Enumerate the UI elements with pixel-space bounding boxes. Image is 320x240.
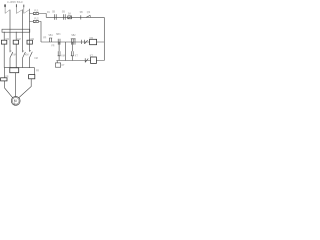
svg-text:QS: QS xyxy=(87,12,91,14)
svg-text:SB: SB xyxy=(80,12,84,14)
svg-text:SB: SB xyxy=(52,12,56,14)
svg-text:FR: FR xyxy=(51,45,54,47)
svg-text:FU: FU xyxy=(47,12,50,14)
svg-text:KT: KT xyxy=(75,56,79,58)
svg-text:KM: KM xyxy=(6,39,10,41)
svg-text:KM: KM xyxy=(90,38,94,40)
svg-text:KM: KM xyxy=(12,55,16,57)
svg-text:FR: FR xyxy=(5,76,8,78)
svg-text:SA: SA xyxy=(68,12,72,15)
svg-text:KM: KM xyxy=(25,55,29,57)
svg-text:SB1: SB1 xyxy=(48,35,53,37)
svg-text:M: M xyxy=(14,99,17,103)
svg-text:3~380V: 3~380V xyxy=(7,0,16,4)
svg-text:50Hz: 50Hz xyxy=(17,0,24,4)
svg-text:FR: FR xyxy=(43,38,46,40)
svg-text:KM: KM xyxy=(34,58,38,60)
svg-text:SB3: SB3 xyxy=(56,34,61,36)
svg-text:KM: KM xyxy=(61,56,65,58)
svg-text:KT: KT xyxy=(62,65,66,67)
svg-text:SB2: SB2 xyxy=(71,35,76,37)
svg-text:FR: FR xyxy=(36,70,39,72)
svg-text:KM: KM xyxy=(17,39,21,41)
svg-text:KM: KM xyxy=(31,39,35,41)
svg-text:SB: SB xyxy=(62,11,66,13)
svg-text:FU1: FU1 xyxy=(34,11,39,13)
svg-text:FU2: FU2 xyxy=(34,19,39,21)
